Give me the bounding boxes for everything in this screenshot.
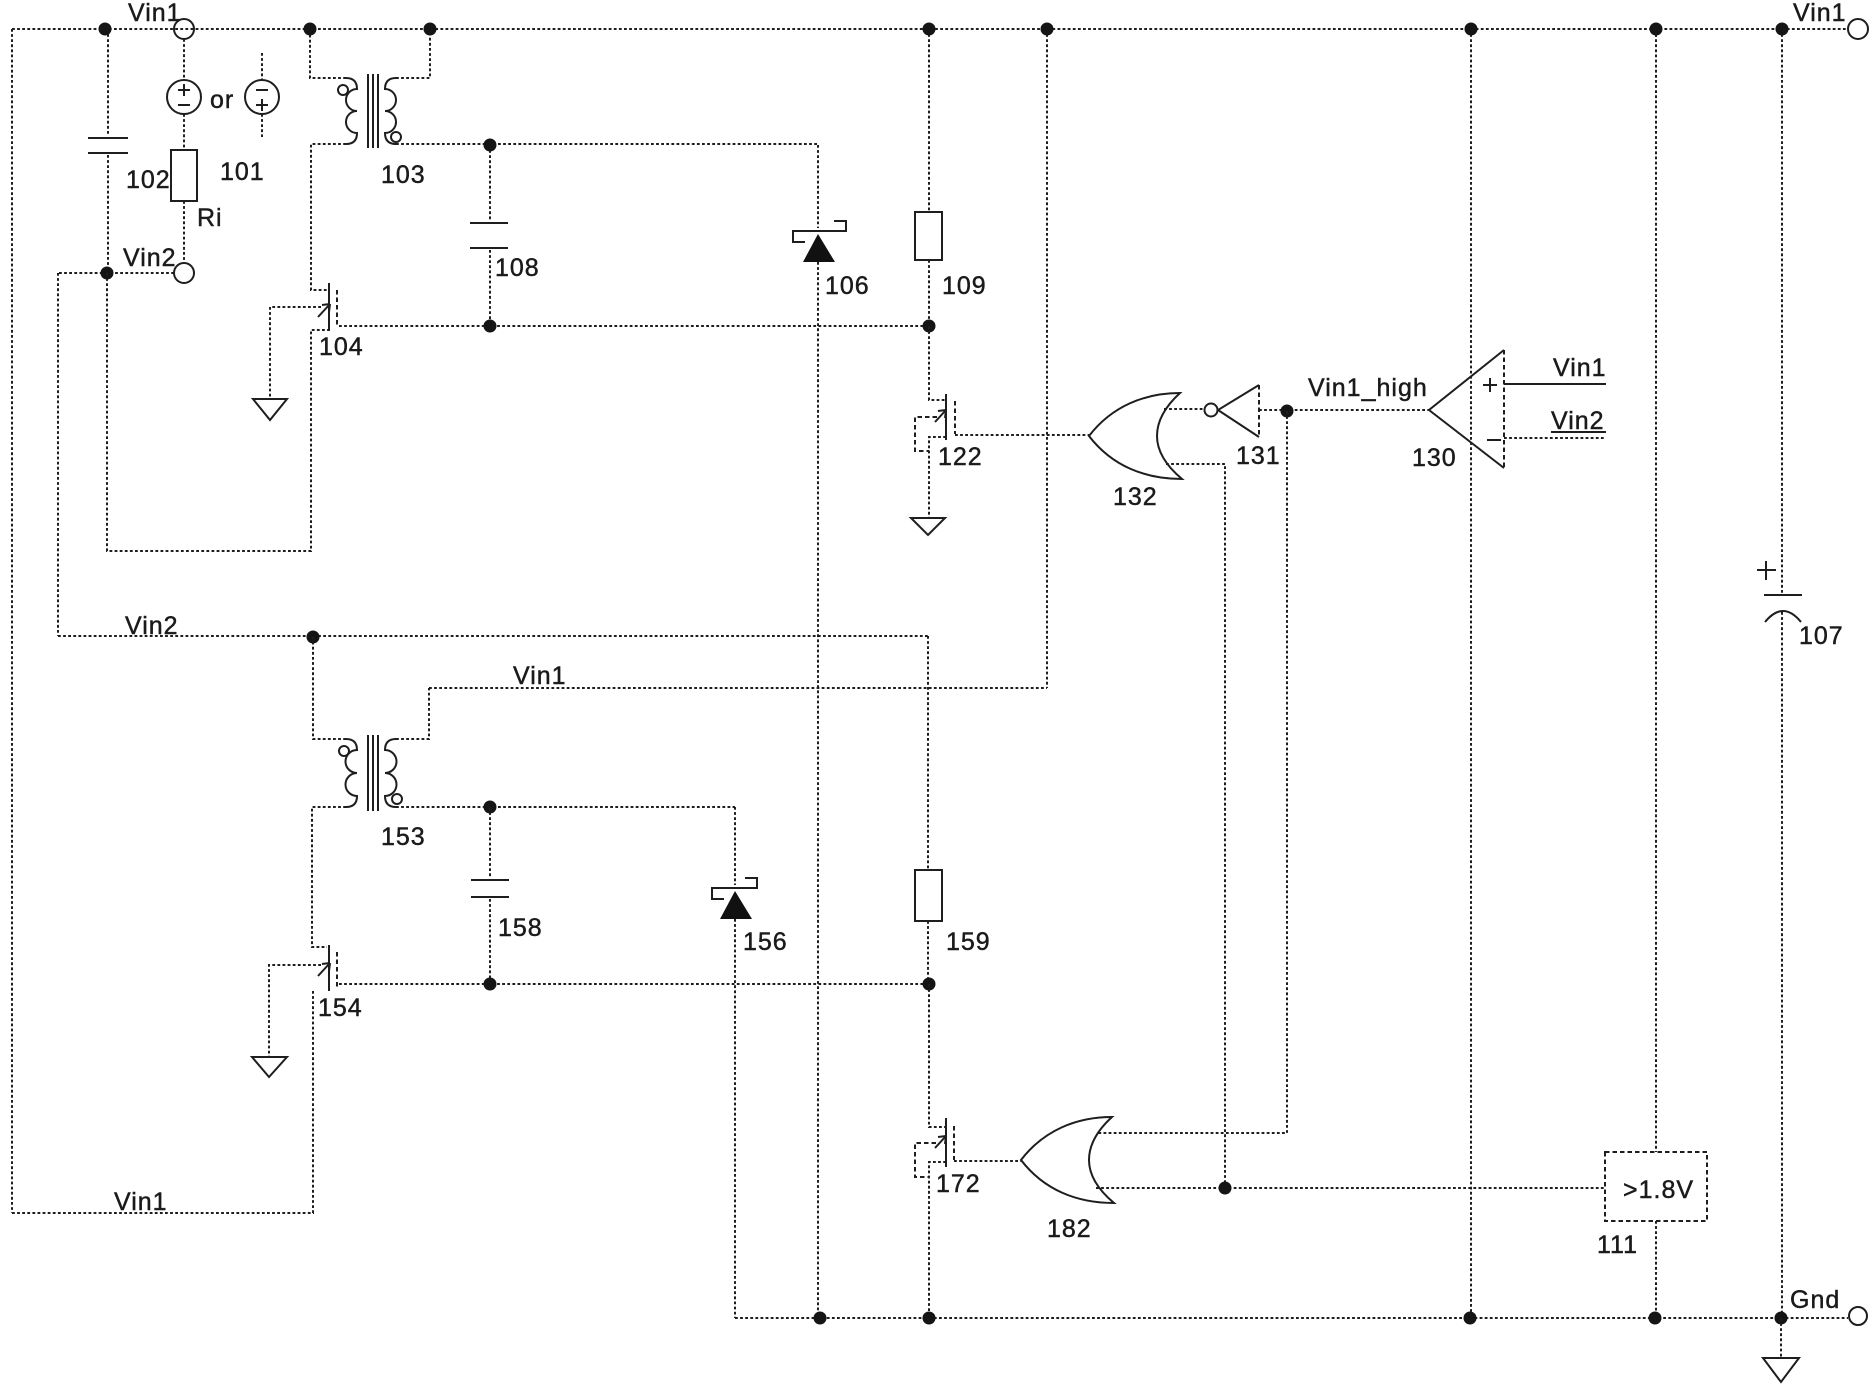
- transformer T103 core: [368, 74, 378, 148]
- junction rail cap102: [99, 23, 112, 36]
- junction Vin1_high: [1281, 405, 1294, 418]
- wire T153 primary top to Vin2: [313, 637, 346, 739]
- current source 101 alternative: [245, 80, 279, 114]
- transformer T153 secondary winding: [385, 739, 402, 807]
- transistor Q122: [915, 326, 955, 518]
- ground symbol bottom right: [1763, 1318, 1799, 1382]
- svg-text:153: 153: [381, 823, 426, 851]
- svg-text:159: 159: [946, 928, 991, 956]
- junction OR182 output x1225: [1219, 1182, 1232, 1195]
- svg-text:106: 106: [825, 272, 870, 300]
- svg-text:130: 130: [1412, 444, 1457, 472]
- node Vin2 comparator input label: [1551, 407, 1606, 435]
- svg-text:Vin1: Vin1: [513, 662, 567, 690]
- svg-text:103: 103: [381, 161, 426, 189]
- wire Ri to Vin2 terminal: [183, 201, 185, 262]
- wire loop to M104 source: [107, 273, 329, 551]
- wire OR132 top input to inverter: [1164, 408, 1204, 410]
- wire M154 gate line y984: [339, 983, 929, 985]
- wire M104 body to ground: [270, 307, 321, 399]
- svg-text:108: 108: [495, 254, 540, 282]
- svg-text:Vin2: Vin2: [125, 612, 179, 640]
- svg-text:or: or: [210, 86, 234, 114]
- node Vin2 terminal: [174, 263, 194, 283]
- ground Q122: [911, 518, 945, 535]
- svg-text:132: 132: [1113, 483, 1158, 511]
- svg-text:122: 122: [938, 443, 983, 471]
- wire T103 secondary bottom y145 line to zener: [396, 143, 818, 145]
- svg-text:154: 154: [318, 994, 363, 1022]
- zener diode D156: [712, 807, 757, 1318]
- svg-text:102: 102: [126, 166, 171, 194]
- ground M104: [253, 399, 287, 420]
- svg-text:>1.8V: >1.8V: [1623, 1176, 1694, 1204]
- voltage source 101: [167, 80, 201, 114]
- transistor Q154: [318, 945, 337, 991]
- svg-text:Vin2: Vin2: [1551, 407, 1605, 435]
- wire bottom Gnd rail: [735, 1317, 1848, 1319]
- svg-text:111: 111: [1597, 1231, 1638, 1259]
- svg-text:Vin1: Vin1: [1553, 354, 1607, 382]
- svg-text:109: 109: [942, 272, 987, 300]
- transistor Q104: [318, 283, 337, 331]
- wire Q172 gate to OR182: [954, 1160, 1021, 1162]
- wire Vin2 to left: [58, 272, 174, 274]
- wire M154 body to ground: [269, 965, 321, 1057]
- resistor R159: [915, 870, 942, 984]
- svg-text:Vin1: Vin1: [114, 1188, 168, 1216]
- wire rail drop x1048 to Vin1 line: [1046, 29, 1048, 688]
- junction y326 R109: [923, 320, 936, 333]
- junction rail T103 primary: [304, 23, 317, 36]
- node Vin1 terminal top-right: [1848, 19, 1868, 39]
- junction gnd Q172: [923, 1312, 936, 1325]
- junction rail R109: [923, 23, 936, 36]
- comparator U130: [1429, 350, 1504, 468]
- capacitor C107: [1757, 29, 1802, 1318]
- junction rail cap107: [1776, 23, 1789, 36]
- svg-text:Vin1_high: Vin1_high: [1308, 374, 1428, 402]
- wire OR182 output to comparator box: [1096, 1187, 1605, 1189]
- resistor R109: [915, 29, 942, 326]
- svg-text:156: 156: [743, 928, 788, 956]
- junction y326 cap108: [484, 320, 497, 333]
- inverter U131: [1205, 385, 1260, 437]
- junction rail x1048: [1041, 23, 1054, 36]
- junction y807 cap158: [484, 801, 497, 814]
- svg-text:107: 107: [1799, 622, 1844, 650]
- transformer T103 secondary winding: [385, 78, 401, 144]
- junction rail T103 secondary: [424, 23, 437, 36]
- transformer T153 core: [368, 735, 378, 811]
- svg-text:Gnd: Gnd: [1790, 1286, 1840, 1314]
- wire top Vin1 rail: [12, 28, 1848, 30]
- node Gnd terminal: [1849, 1307, 1867, 1325]
- wire Vin1_high inverter to comparator: [1259, 409, 1429, 411]
- svg-text:172: 172: [936, 1170, 981, 1198]
- junction y984 cap158: [484, 978, 497, 991]
- wire Vin1_high down to OR182 top input: [1098, 411, 1287, 1133]
- transformer T153 primary winding: [339, 739, 357, 807]
- or-gate U132: [1089, 393, 1182, 479]
- wire T153 secondary bottom y807: [396, 806, 735, 808]
- junction Vin2 T153: [307, 631, 320, 644]
- wire Vin2 down to R159: [927, 636, 929, 870]
- wire comparator minus input Vin2: [1504, 437, 1606, 439]
- junction y984 R159: [923, 978, 936, 991]
- svg-text:Vin2: Vin2: [123, 244, 177, 272]
- node Vin1 terminal top-left: [174, 19, 194, 39]
- capacitor C102: [88, 29, 128, 273]
- transformer T103 primary winding: [338, 78, 357, 144]
- wire T103 primary top to rail: [310, 29, 346, 78]
- junction rail box111: [1650, 23, 1663, 36]
- ground M154: [252, 1057, 287, 1077]
- junction gnd zener106: [814, 1312, 827, 1325]
- wire comparator plus input Vin1: [1504, 383, 1606, 385]
- wire source top lead: [183, 39, 185, 80]
- junction rail x1470: [1465, 23, 1478, 36]
- wire Vin2 drop to Vin2 line: [57, 273, 59, 636]
- zener diode D106: [793, 145, 846, 1318]
- junction gnd x1470: [1464, 1312, 1477, 1325]
- resistor Ri: [171, 150, 197, 201]
- svg-text:158: 158: [498, 914, 543, 942]
- wire Q122 gate to OR132: [955, 434, 1089, 436]
- wire left border Vin1: [11, 29, 13, 1213]
- junction gnd box111: [1649, 1312, 1662, 1325]
- wire current source leads: [261, 53, 263, 137]
- svg-text:101: 101: [220, 158, 265, 186]
- svg-text:131: 131: [1236, 442, 1281, 470]
- junction gnd cap107: [1775, 1312, 1788, 1325]
- wire T103 primary bottom to M104 drain: [311, 144, 346, 290]
- wire T153 primary bottom to M154 drain: [312, 807, 346, 947]
- wire rail x1470 full height: [1470, 29, 1472, 1318]
- wire source to resistor Ri: [183, 114, 185, 150]
- svg-text:Vin1: Vin1: [128, 0, 182, 27]
- wire T153 secondary top to Vin1 line: [396, 688, 429, 739]
- wire Vin2 line y636: [58, 635, 928, 637]
- wire M104 gate line y326: [339, 325, 929, 327]
- transistor Q172: [915, 984, 954, 1318]
- junction cap102/Vin2: [101, 267, 114, 280]
- svg-text:182: 182: [1047, 1215, 1092, 1243]
- wire bottom-left Vin1 segment: [12, 990, 313, 1213]
- or-gate U182: [1021, 1117, 1114, 1203]
- wire OR132 bottom input down x1225: [1166, 464, 1225, 1188]
- svg-text:Vin1: Vin1: [1793, 0, 1847, 27]
- svg-text:104: 104: [319, 333, 364, 361]
- comparator box U111: [1605, 29, 1707, 1318]
- wire T103 secondary top to rail: [396, 29, 430, 78]
- junction y145 cap108: [484, 139, 497, 152]
- wire Vin1 line y688: [429, 687, 1047, 689]
- capacitor C158: [471, 807, 509, 984]
- svg-text:Ri: Ri: [197, 204, 223, 232]
- capacitor C108: [470, 145, 508, 326]
